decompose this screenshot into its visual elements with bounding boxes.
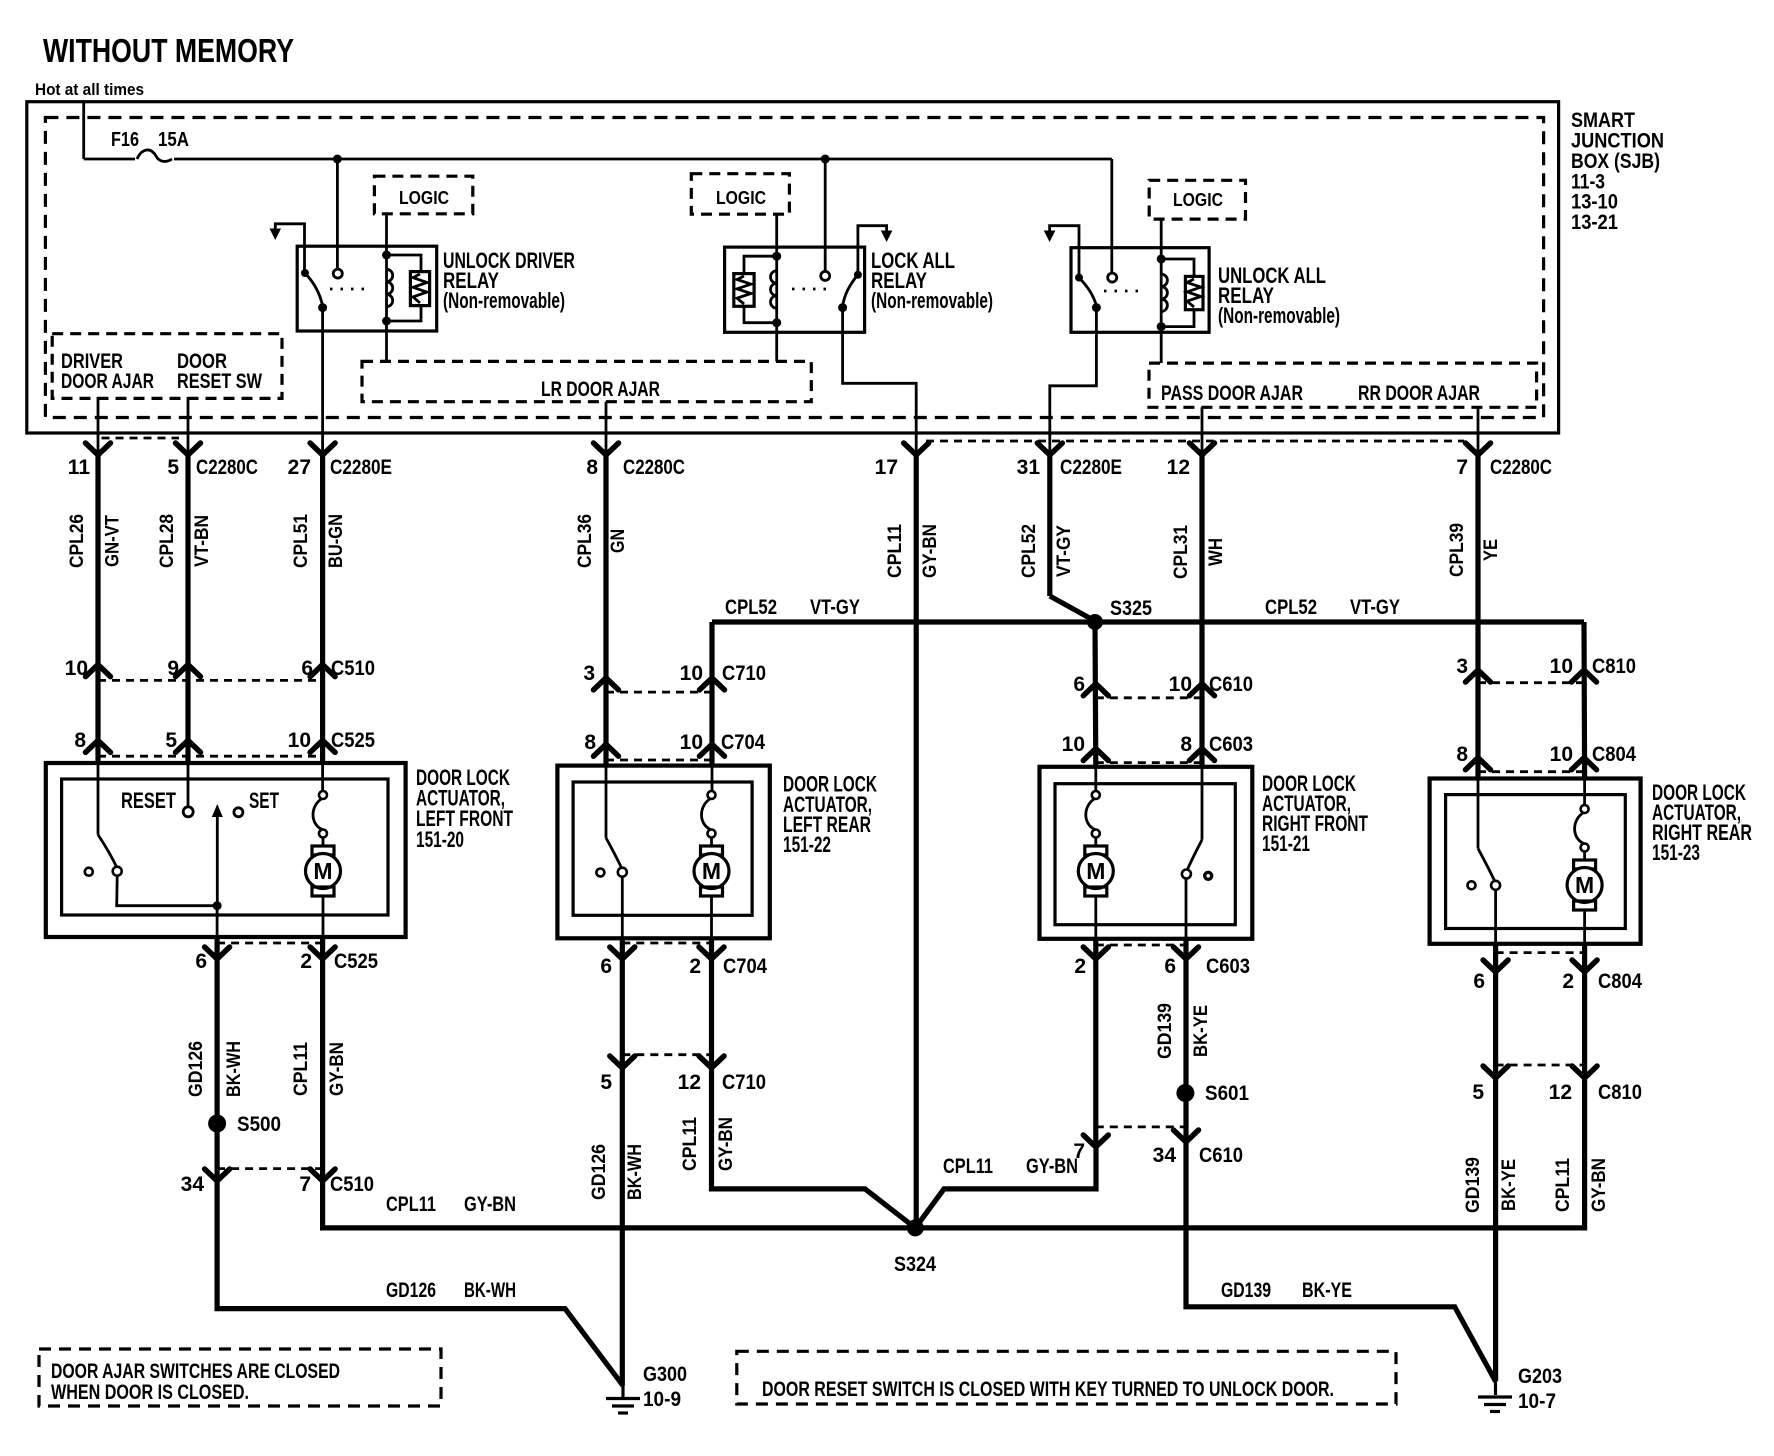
svg-text:VT-GY: VT-GY bbox=[810, 596, 860, 619]
LF switch wire out bbox=[216, 906, 219, 937]
wire S325 down to RF actuator motor bbox=[1092, 622, 1098, 767]
motor M right front bbox=[1092, 791, 1100, 799]
svg-text:M: M bbox=[702, 858, 721, 884]
svg-text:BK-WH: BK-WH bbox=[625, 1144, 646, 1200]
label CPL11 GY-BN vertical RR motor bbox=[1553, 1158, 1610, 1212]
LF RESET terminal bbox=[121, 765, 193, 817]
relay K1 contact gap dotted line bbox=[330, 288, 370, 291]
connector arrow out of SJB at x=1049.8 bbox=[1037, 443, 1062, 455]
LR actuator label bbox=[783, 772, 877, 858]
svg-text:151-21: 151-21 bbox=[1262, 831, 1310, 856]
LR ajar switch wire in bbox=[605, 767, 608, 838]
door lock actuator right rear inner box bbox=[1446, 795, 1626, 929]
svg-text:6: 6 bbox=[1473, 970, 1485, 993]
bus label CPL11 GY-BN right of S324 bbox=[943, 1155, 1078, 1178]
motor M left rear bbox=[708, 791, 716, 799]
svg-text:6: 6 bbox=[195, 950, 207, 973]
svg-text:C2280C: C2280C bbox=[196, 456, 258, 479]
label CPL51 BU-GN bbox=[291, 514, 347, 568]
connector C510 row arrows pins 10 9 6 bbox=[86, 665, 111, 677]
junction on rail to lock-all relay bbox=[821, 155, 830, 164]
connector C804 row arrows pins 8 10 bbox=[1466, 758, 1491, 770]
LF ajar switch contacts bbox=[85, 867, 122, 876]
smart junction box SJB inner dashed box bbox=[45, 118, 1543, 418]
svg-text:C804: C804 bbox=[1592, 743, 1636, 766]
connector C610 lower row arrows pins 7 34 bbox=[1083, 1127, 1198, 1147]
svg-text:(Non-removable): (Non-removable) bbox=[443, 288, 565, 313]
svg-text:6: 6 bbox=[1073, 673, 1085, 696]
svg-text:C704: C704 bbox=[723, 955, 767, 978]
wire relay K3 coil to PASS DOOR AJAR box bbox=[1160, 327, 1163, 364]
svg-text:151-20: 151-20 bbox=[416, 827, 464, 852]
relay K1 coil bbox=[382, 251, 393, 326]
relay K2 switch pivot bbox=[854, 271, 862, 279]
RF bottom labels 2 6 C603 bbox=[1074, 955, 1250, 978]
connector arrow out of SJB at x=98 bbox=[86, 443, 111, 455]
svg-text:YE: YE bbox=[1481, 539, 1502, 561]
svg-text:VT-GY: VT-GY bbox=[1350, 596, 1400, 619]
note box door ajar switches bbox=[39, 1349, 441, 1406]
relay K3 label UNLOCK ALL RELAY (Non-removable) bbox=[1218, 263, 1340, 328]
RR actuator label bbox=[1652, 780, 1752, 865]
svg-text:CPL51: CPL51 bbox=[291, 514, 312, 568]
RF ajar switch contacts bbox=[1182, 870, 1212, 880]
svg-text:GY-BN: GY-BN bbox=[1026, 1155, 1078, 1178]
wire CPL31 WH pass door ajar bbox=[1199, 455, 1204, 767]
RF ajar switch wire in bbox=[1201, 767, 1204, 840]
connector C525 row labels bbox=[74, 729, 375, 752]
connector C710 lower labels 5 12 bbox=[600, 1071, 766, 1094]
svg-text:G300: G300 bbox=[643, 1363, 687, 1386]
svg-text:7: 7 bbox=[1456, 456, 1468, 479]
svg-text:151-22: 151-22 bbox=[783, 832, 831, 857]
svg-text:C810: C810 bbox=[1592, 655, 1636, 678]
svg-text:C710: C710 bbox=[722, 662, 766, 685]
motor M left front bbox=[319, 791, 327, 799]
svg-text:CPL11: CPL11 bbox=[943, 1155, 993, 1178]
RR ajar switch wire in bbox=[1477, 779, 1480, 849]
RR motor wire out bbox=[1583, 910, 1586, 944]
RF switch wire out bbox=[1185, 879, 1188, 939]
smart junction box SJB outer solid box bbox=[27, 102, 1559, 433]
connector C810 lower row arrows pins 5 12 bbox=[1483, 1065, 1597, 1078]
RF actuator label bbox=[1262, 771, 1368, 856]
svg-text:3: 3 bbox=[1456, 655, 1468, 678]
relay K3 contact gap dotted line bbox=[1104, 290, 1145, 293]
svg-text:GD126: GD126 bbox=[386, 1279, 436, 1302]
svg-text:(Non-removable): (Non-removable) bbox=[1218, 303, 1340, 328]
label GD139 BK-YE vertical RF bbox=[1155, 1003, 1212, 1059]
label CPL11 GY-BN vertical LR motor bbox=[680, 1117, 737, 1171]
pin 5 label and connector C2280C bbox=[167, 456, 258, 479]
wire driver door ajar to pin 11 bbox=[97, 397, 100, 455]
svg-text:34: 34 bbox=[181, 1173, 205, 1196]
connector arrow out of SJB at x=188 bbox=[176, 443, 201, 455]
svg-text:GD139: GD139 bbox=[1463, 1157, 1484, 1213]
wire CPL36 GN LR door ajar bbox=[603, 455, 608, 767]
svg-text:10: 10 bbox=[1062, 733, 1085, 756]
wire CPL51 BU-GN unlock driver motor feed bbox=[320, 455, 325, 765]
svg-text:GN: GN bbox=[608, 529, 629, 553]
svg-text:G203: G203 bbox=[1518, 1365, 1562, 1388]
relay K1 UNLOCK DRIVER box bbox=[297, 246, 437, 331]
svg-text:GY-BN: GY-BN bbox=[464, 1193, 516, 1216]
junction on rail to unlock-driver relay bbox=[333, 155, 342, 164]
wire CPL11 GY-BN from RR motor to S324 bus bbox=[915, 944, 1584, 1228]
driver door ajar / door reset sw box bbox=[52, 334, 282, 399]
svg-text:12: 12 bbox=[1549, 1081, 1572, 1104]
svg-text:17: 17 bbox=[875, 456, 898, 479]
relay K1 common terminal bbox=[333, 269, 342, 278]
wire LOGIC3 to relay K3 coil bbox=[1160, 219, 1163, 259]
label CPL11 GY-BN bbox=[885, 524, 941, 578]
note box door reset switch bbox=[737, 1351, 1396, 1404]
door lock actuator left rear inner box bbox=[573, 782, 752, 915]
connector C710 row labels bbox=[583, 662, 766, 685]
connector C610 row arrows pins 6 10 bbox=[1083, 684, 1108, 696]
RR ajar switch arm bbox=[1478, 848, 1495, 881]
svg-text:C704: C704 bbox=[721, 731, 765, 754]
label CPL52 VT-GY bbox=[1019, 524, 1075, 578]
svg-text:GY-BN: GY-BN bbox=[1589, 1158, 1610, 1212]
label GD126 BK-WH vertical bbox=[186, 1041, 245, 1097]
svg-text:LR DOOR AJAR: LR DOOR AJAR bbox=[541, 378, 660, 401]
svg-text:10-9: 10-9 bbox=[643, 1388, 681, 1411]
ground G203 bbox=[1478, 1365, 1562, 1413]
svg-text:CPL52: CPL52 bbox=[1019, 524, 1040, 578]
svg-text:S500: S500 bbox=[237, 1113, 281, 1136]
svg-text:SET: SET bbox=[249, 788, 279, 813]
bus CPL52 VT-GY horizontal bbox=[712, 619, 1584, 624]
svg-text:LOGIC: LOGIC bbox=[399, 188, 449, 208]
svg-text:151-23: 151-23 bbox=[1652, 840, 1700, 865]
relay K2 coil suppression resistor bbox=[734, 256, 777, 323]
wire from hot feed into SJB bbox=[82, 102, 85, 159]
svg-text:DOOR AJAR: DOOR AJAR bbox=[61, 370, 154, 393]
svg-text:C2280C: C2280C bbox=[1490, 456, 1552, 479]
svg-text:27: 27 bbox=[288, 456, 311, 479]
wire CPL11 GY-BN from LF motor to S324 bbox=[323, 937, 916, 1228]
connector C2280C dashed link pins 11-5 bbox=[102, 437, 180, 440]
svg-text:Hot at all times: Hot at all times bbox=[35, 80, 144, 99]
splice S500 bbox=[208, 1113, 281, 1136]
relay K3 hook arrow from switch bbox=[1044, 226, 1079, 278]
connector arrow out of SJB at x=1478 bbox=[1466, 443, 1491, 455]
svg-text:CPL11: CPL11 bbox=[386, 1193, 436, 1216]
fuse F16 15A bbox=[84, 129, 189, 161]
connector C710 row arrows pins 3 10 bbox=[594, 678, 619, 690]
logic box 1 bbox=[374, 176, 472, 214]
label CPL36 GN bbox=[575, 514, 629, 568]
bus label CPL52 VT-GY left bbox=[725, 596, 860, 619]
splice S325 bbox=[1087, 597, 1152, 630]
label GD139 BK-YE horizontal bbox=[1221, 1279, 1352, 1302]
LF ajar switch arm bbox=[98, 835, 117, 867]
svg-text:(Non-removable): (Non-removable) bbox=[871, 288, 993, 313]
connector C704 row arrows pins 8 10 bbox=[594, 744, 619, 756]
svg-text:LOGIC: LOGIC bbox=[716, 188, 766, 208]
svg-text:3: 3 bbox=[583, 662, 595, 685]
svg-text:5: 5 bbox=[167, 456, 179, 479]
LF switch output to junction bbox=[117, 876, 217, 906]
svg-text:5: 5 bbox=[165, 729, 177, 752]
svg-text:RESET: RESET bbox=[121, 788, 176, 813]
svg-text:5: 5 bbox=[1472, 1081, 1484, 1104]
connector C603 row arrows pins 10 8 bbox=[1083, 749, 1108, 761]
svg-text:C510: C510 bbox=[330, 1173, 374, 1196]
relay K3 coil suppression resistor bbox=[1161, 259, 1203, 327]
svg-text:RESET SW: RESET SW bbox=[177, 370, 262, 393]
RF ajar switch arm bbox=[1187, 840, 1202, 870]
pin 27 label and connector C2280E bbox=[288, 456, 392, 479]
relay K2 contact gap dotted line bbox=[792, 288, 834, 291]
svg-text:C804: C804 bbox=[1598, 970, 1642, 993]
label CPL26 GN-VT bbox=[67, 514, 124, 568]
connector C704 row labels bbox=[584, 731, 765, 754]
wire relay K3 switch output jog to pin 31 bbox=[1050, 308, 1097, 455]
svg-text:M: M bbox=[1086, 858, 1105, 884]
pin 7 label and connector C2280C bbox=[1456, 456, 1552, 479]
label CPL11 GY-BN vertical LF bbox=[291, 1042, 348, 1096]
svg-text:BK-YE: BK-YE bbox=[1302, 1279, 1352, 1302]
svg-text:10: 10 bbox=[1550, 743, 1573, 766]
svg-text:GD139: GD139 bbox=[1155, 1003, 1176, 1059]
svg-text:GY-BN: GY-BN bbox=[920, 524, 941, 578]
RF motor branch wire in bbox=[1094, 767, 1097, 791]
RR bottom labels 6 2 C804 bbox=[1473, 970, 1642, 993]
LF ajar switch wire in bbox=[97, 765, 100, 835]
svg-text:RR DOOR AJAR: RR DOOR AJAR bbox=[1358, 382, 1480, 405]
RR bottom connector arrows pins 6 2 bbox=[1483, 953, 1597, 972]
svg-text:BK-WH: BK-WH bbox=[464, 1279, 516, 1302]
svg-text:DOOR AJAR SWITCHES ARE CLOSED: DOOR AJAR SWITCHES ARE CLOSED bbox=[51, 1360, 340, 1383]
connector C804 row labels bbox=[1456, 743, 1636, 766]
LF bottom connector arrows pins 6 2 bbox=[205, 943, 336, 959]
relay K3 coil bbox=[1157, 255, 1168, 332]
relay K2 LOCK ALL box bbox=[725, 247, 865, 332]
relay K2 coil bbox=[771, 252, 782, 328]
connector C810 row labels bbox=[1456, 655, 1636, 678]
svg-text:10: 10 bbox=[288, 729, 311, 752]
svg-text:7: 7 bbox=[299, 1173, 311, 1196]
relay K3 switch arm junction bbox=[1092, 303, 1101, 312]
svg-text:WITHOUT MEMORY: WITHOUT MEMORY bbox=[43, 32, 294, 69]
svg-text:CPL11: CPL11 bbox=[885, 524, 906, 578]
motor M right rear bbox=[1581, 805, 1589, 813]
connector arrow out of SJB at x=322.6 bbox=[310, 443, 335, 455]
svg-text:5: 5 bbox=[600, 1071, 612, 1094]
door lock actuator left front inner box bbox=[62, 779, 388, 915]
relay K1 switch pivot bbox=[301, 269, 309, 277]
pin 31 label and connector C2280E bbox=[1017, 456, 1122, 479]
svg-text:C610: C610 bbox=[1199, 1144, 1243, 1167]
svg-text:C2280E: C2280E bbox=[1060, 456, 1122, 479]
relay K1 label UNLOCK DRIVER RELAY (Non-removable) bbox=[443, 248, 575, 313]
svg-text:10: 10 bbox=[1169, 673, 1192, 696]
relay K1 switch arm junction bbox=[318, 303, 327, 312]
relay K1 switch arm bbox=[305, 273, 323, 306]
svg-text:CPL11: CPL11 bbox=[1553, 1158, 1574, 1212]
svg-text:CPL52: CPL52 bbox=[1265, 596, 1317, 619]
wire LR door ajar to pin 8 bbox=[605, 402, 608, 455]
wire relay K1 switch output to pin 27 bbox=[321, 308, 324, 455]
svg-text:12: 12 bbox=[678, 1071, 701, 1094]
svg-text:BK-YE: BK-YE bbox=[1191, 1005, 1212, 1057]
relay K2 switch arm junction bbox=[838, 303, 847, 312]
relay K2 label LOCK ALL RELAY (Non-removable) bbox=[871, 248, 993, 313]
relay K1 coil suppression resistor bbox=[387, 255, 430, 321]
svg-text:CPL36: CPL36 bbox=[575, 514, 596, 568]
svg-text:LOGIC: LOGIC bbox=[1173, 190, 1223, 210]
connector C603 row labels bbox=[1062, 733, 1253, 756]
svg-text:2: 2 bbox=[300, 950, 312, 973]
LR ajar switch contacts bbox=[596, 868, 626, 877]
svg-text:10: 10 bbox=[65, 657, 88, 680]
svg-text:6: 6 bbox=[301, 657, 313, 680]
svg-text:C2280C: C2280C bbox=[623, 456, 685, 479]
svg-text:8: 8 bbox=[586, 456, 598, 479]
svg-text:C810: C810 bbox=[1598, 1081, 1642, 1104]
wire RR door ajar to pin 7 bbox=[1477, 407, 1480, 455]
relay K1 hook arrow from switch bbox=[270, 224, 305, 273]
wire relay K2 switch output jog to pin 17 bbox=[843, 308, 917, 455]
RR switch wire out bbox=[1494, 890, 1497, 944]
svg-text:C603: C603 bbox=[1209, 733, 1253, 756]
svg-text:WH: WH bbox=[1206, 538, 1227, 566]
RR ajar switch contacts bbox=[1468, 881, 1501, 890]
svg-text:VT-GY: VT-GY bbox=[1054, 525, 1075, 577]
RR motor branch wire in bbox=[1583, 779, 1586, 807]
label SMART JUNCTION BOX (SJB) 11-3 13-10 13-21 bbox=[1571, 109, 1664, 234]
door lock actuator left front outer box bbox=[46, 763, 406, 937]
LR bottom connector arrows pins 6 2 bbox=[610, 943, 724, 959]
LR DOOR AJAR box bbox=[362, 361, 811, 401]
door lock actuator right front outer box bbox=[1040, 767, 1253, 939]
LF motor wire out bbox=[322, 896, 325, 937]
svg-text:GY-BN: GY-BN bbox=[327, 1042, 348, 1096]
svg-text:15A: 15A bbox=[158, 129, 189, 151]
LF motor branch wire in bbox=[321, 765, 324, 791]
connector arrow out of SJB at x=606 bbox=[594, 443, 619, 455]
wire pass door ajar to pin 12 bbox=[1201, 407, 1204, 455]
wire door reset sw to pin 5 bbox=[187, 397, 190, 455]
svg-text:C603: C603 bbox=[1206, 955, 1250, 978]
svg-text:8: 8 bbox=[1180, 733, 1192, 756]
svg-text:CPL11: CPL11 bbox=[680, 1117, 701, 1171]
wire CPL52 VT-GY unlock-all feed to S325 bbox=[1050, 455, 1095, 621]
svg-text:11: 11 bbox=[68, 456, 91, 479]
svg-text:8: 8 bbox=[1456, 743, 1468, 766]
svg-text:10: 10 bbox=[680, 662, 703, 685]
bus label CPL52 VT-GY right bbox=[1265, 596, 1400, 619]
wire bus to RR actuator motor bbox=[1581, 622, 1587, 779]
svg-text:GD139: GD139 bbox=[1221, 1279, 1271, 1302]
svg-text:10: 10 bbox=[1550, 655, 1573, 678]
wire power rail from fuse to relays bbox=[174, 159, 1112, 273]
svg-text:7: 7 bbox=[1073, 1140, 1085, 1163]
relay K2 hook arrow from switch bbox=[858, 226, 893, 275]
svg-text:CPL52: CPL52 bbox=[725, 596, 777, 619]
LR ajar switch arm bbox=[606, 838, 622, 868]
label GD126 BK-WH horizontal bbox=[386, 1279, 516, 1302]
svg-text:2: 2 bbox=[1074, 955, 1086, 978]
wire CPL39 YE RR door ajar bbox=[1475, 455, 1480, 779]
label GD126 BK-WH vertical LR bbox=[589, 1144, 646, 1200]
door lock actuator left rear outer box bbox=[557, 766, 769, 939]
wire RF motor down to C610 bbox=[1093, 939, 1098, 1147]
RF bottom connector arrows pins 2 6 bbox=[1083, 945, 1198, 959]
svg-text:34: 34 bbox=[1153, 1144, 1177, 1167]
bus label CPL11 GY-BN left bbox=[386, 1193, 516, 1216]
LR bottom labels 6 2 C704 bbox=[600, 955, 767, 978]
svg-text:GN-VT: GN-VT bbox=[103, 515, 124, 567]
wire CPL26 GN-VT driver door ajar bbox=[95, 455, 100, 765]
svg-text:S324: S324 bbox=[894, 1253, 936, 1276]
wire bus to LR actuator motor bbox=[709, 622, 714, 767]
connector C510 row labels bbox=[65, 657, 375, 680]
connector arrow out of SJB at x=1202 bbox=[1190, 443, 1215, 455]
connector C810 lower labels 5 12 bbox=[1472, 1081, 1642, 1104]
wire CPL11 GY-BN from LR motor to S324 bbox=[712, 938, 916, 1228]
svg-text:BK-WH: BK-WH bbox=[224, 1041, 245, 1097]
connector C2280E dashed link pins 17-31-12 bbox=[926, 440, 1464, 443]
svg-text:GD126: GD126 bbox=[589, 1144, 610, 1200]
pin 8 label and connector C2280C bbox=[586, 456, 685, 479]
connector C610 lower labels 7 34 bbox=[1073, 1140, 1243, 1167]
RF motor wire out bbox=[1094, 896, 1097, 939]
svg-text:CPL28: CPL28 bbox=[157, 514, 178, 568]
connector C710 lower row arrows pins 5 12 bbox=[610, 1055, 724, 1068]
wire CPL11 GY-BN from S324 to RF motor bbox=[915, 1147, 1096, 1228]
svg-text:2: 2 bbox=[689, 955, 701, 978]
svg-text:GY-BN: GY-BN bbox=[716, 1117, 737, 1171]
relay K3 switch arm bbox=[1079, 278, 1096, 306]
svg-text:VT-BN: VT-BN bbox=[192, 515, 213, 567]
svg-text:CPL26: CPL26 bbox=[67, 514, 88, 568]
svg-text:C2280E: C2280E bbox=[330, 456, 392, 479]
splice S324 bbox=[894, 1219, 936, 1276]
ground G300 bbox=[606, 1363, 687, 1413]
svg-text:F16: F16 bbox=[111, 129, 139, 151]
svg-text:13-21: 13-21 bbox=[1571, 211, 1618, 234]
svg-text:31: 31 bbox=[1017, 456, 1041, 479]
wire rail branch to relay K1 common bbox=[336, 159, 339, 269]
svg-text:S601: S601 bbox=[1205, 1082, 1249, 1105]
relay K2 common terminal bbox=[821, 271, 830, 280]
svg-text:PASS DOOR AJAR: PASS DOOR AJAR bbox=[1161, 382, 1303, 405]
wire rail branch to relay K2 common bbox=[824, 159, 827, 271]
svg-text:C525: C525 bbox=[334, 950, 378, 973]
LF bottom labels 6 2 C525 bbox=[195, 950, 378, 973]
svg-text:CPL31: CPL31 bbox=[1171, 525, 1192, 579]
wire CPL11 GY-BN lock-all feed to S324 bbox=[914, 455, 919, 1228]
relay K3 switch pivot bbox=[1075, 274, 1083, 282]
svg-text:BU-GN: BU-GN bbox=[326, 514, 347, 568]
svg-text:C525: C525 bbox=[331, 729, 375, 752]
wire LOGIC1 to relay K1 coil bbox=[385, 214, 388, 255]
LR switch wire out bbox=[621, 877, 624, 939]
wire GD126 BK-WH from LR switch to G300 bbox=[620, 938, 625, 1385]
svg-text:8: 8 bbox=[74, 729, 86, 752]
door lock actuator right front inner box bbox=[1055, 784, 1235, 925]
connector C610 row labels bbox=[1073, 673, 1253, 696]
svg-text:CPL11: CPL11 bbox=[291, 1042, 312, 1096]
relay K2 switch arm bbox=[843, 275, 858, 306]
svg-text:10: 10 bbox=[680, 731, 703, 754]
label GD139 BK-YE vertical RR bbox=[1463, 1157, 1520, 1213]
svg-text:BK-YE: BK-YE bbox=[1499, 1159, 1520, 1211]
logic box 2 bbox=[691, 174, 789, 215]
